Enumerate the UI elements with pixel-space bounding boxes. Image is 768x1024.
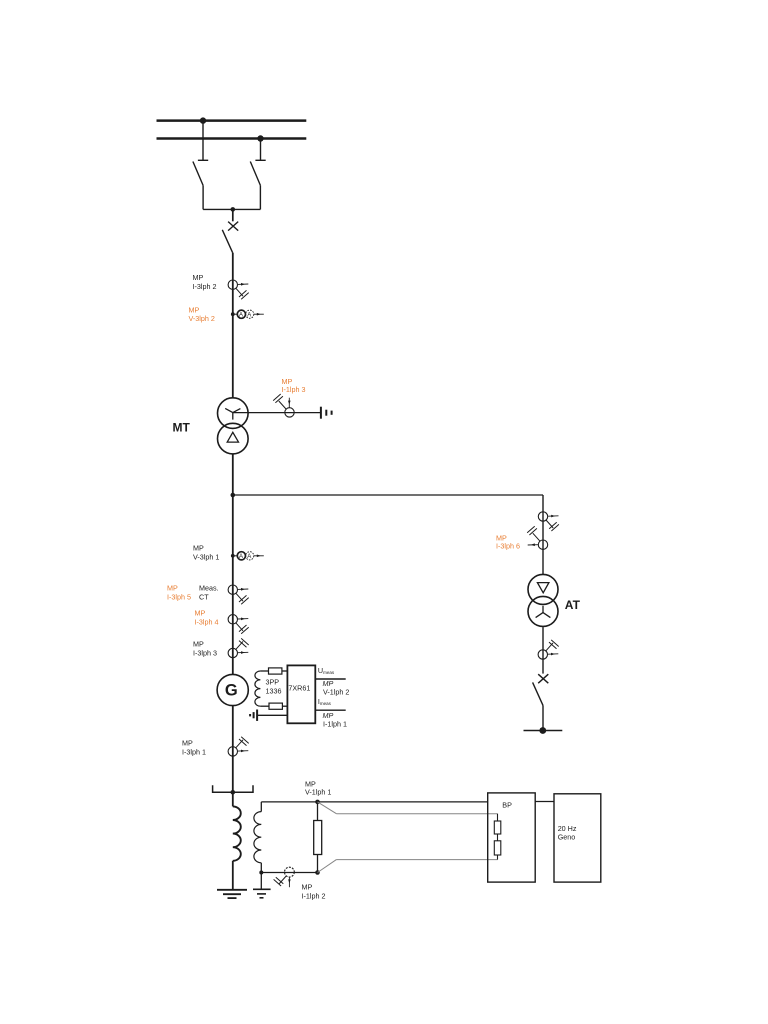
wire coil bottom to 7XR61: [260, 705, 287, 707]
generator G: [217, 674, 248, 705]
wire below AT: [542, 627, 544, 674]
label MT: [173, 421, 191, 435]
arrow MP I-3lph 3: [238, 651, 248, 654]
busbar 1: [157, 119, 307, 122]
node tap 2 on busbar 2: [257, 135, 263, 141]
label MP I-3lph 5: [167, 584, 191, 602]
CT circle MP I-3lph 6: [538, 540, 547, 549]
wire output U meas: [315, 678, 345, 680]
AT wye symbol: [536, 606, 551, 618]
arrow MP I-3lph 1: [238, 750, 248, 753]
svg-text:AT: AT: [565, 598, 581, 612]
slash mark MP I-3lph 4: [236, 623, 249, 634]
wire coil to ground: [232, 861, 234, 890]
resistor BP 2: [494, 841, 501, 855]
svg-text:A: A: [239, 554, 243, 560]
wire main below junction: [232, 495, 234, 674]
slash mark MP I-3lph 3: [236, 638, 249, 649]
svg-text:I-1lph 3: I-1lph 3: [282, 385, 306, 394]
svg-text:I-3lph 1: I-3lph 1: [182, 748, 206, 757]
label MP I-3lph 1: [182, 739, 206, 757]
CT circle MP I-3lph 3: [228, 648, 237, 657]
busbar 2: [157, 137, 307, 140]
label MP V-3lph 2: [189, 305, 215, 323]
CT circle MP I-3lph 2: [228, 280, 237, 289]
svg-text:Imeas: Imeas: [318, 697, 332, 706]
svg-text:MT: MT: [173, 421, 191, 435]
relay box 7XR61: [287, 665, 315, 723]
svg-text:MP: MP: [195, 609, 206, 618]
label MP I-3lph 4: [195, 609, 219, 627]
wire secondary to ground: [260, 873, 262, 890]
node junction main: [231, 493, 236, 498]
label MP V-3lph 1: [193, 544, 219, 562]
svg-text:MP: MP: [189, 305, 200, 314]
node tap 1 on busbar 1: [200, 117, 206, 123]
wire junction to AT branch: [233, 494, 543, 496]
label AT: [565, 598, 581, 612]
wire BP resistor chain: [497, 814, 499, 860]
disconnector left: [193, 162, 203, 210]
label MP V-1lph 2: [323, 679, 350, 696]
label MP I-3lph 3: [193, 640, 217, 658]
arrow MP I-3lph 2: [238, 283, 248, 286]
svg-text:A: A: [247, 554, 251, 560]
VT symbol MP V-3lph 2: [231, 310, 264, 318]
svg-text:MP: MP: [182, 739, 193, 748]
generator terminal bracket: [213, 785, 253, 792]
slash mark MP I-3lph 6: [527, 526, 540, 541]
slash mark CT AT upper: [546, 520, 559, 531]
gray wire upper to BP: [318, 802, 498, 814]
CT circle MP I-3lph 4: [228, 615, 237, 624]
wire secondary top: [260, 802, 262, 812]
transformer AT winding 2: [528, 596, 558, 626]
wire MT neutral: [233, 412, 321, 414]
svg-text:Meas.: Meas.: [199, 584, 219, 593]
wire top link to BP: [261, 801, 487, 803]
box BP: [488, 793, 536, 882]
svg-text:1336: 1336: [266, 686, 282, 695]
arrow MP I-3lph 6: [528, 543, 538, 546]
svg-text:V-3lph 2: V-3lph 2: [189, 314, 215, 323]
wire secondary bottom: [261, 863, 317, 873]
transformer MT winding 1: [218, 398, 249, 429]
wire G to bracket: [232, 706, 234, 793]
label I meas: [318, 697, 332, 706]
label U meas: [318, 666, 335, 675]
svg-text:I-1lph 1: I-1lph 1: [323, 719, 347, 728]
wire AT branch vertical upper: [542, 495, 544, 574]
svg-text:MP: MP: [193, 544, 204, 553]
CT circle AT upper: [538, 512, 547, 521]
slash mark MP I-1lph 2: [274, 876, 287, 886]
slash mark Meas. CT: [236, 593, 249, 604]
coil earthing transformer secondary: [254, 812, 261, 863]
svg-text:V-3lph 1: V-3lph 1: [193, 553, 219, 562]
CT circle MP I-3lph 1: [228, 747, 237, 756]
label 3PP 1336: [266, 677, 282, 695]
slash mark CT AT lower: [546, 640, 559, 651]
MT delta symbol: [227, 432, 238, 442]
box 20 Hz Geno: [554, 794, 601, 882]
node junction below disconnectors: [231, 207, 236, 212]
label MP I-3lph 2: [193, 273, 217, 291]
CT circle MP I-1lph 2: [285, 867, 295, 877]
node resistor bottom: [315, 870, 320, 875]
wire tap 1 down: [198, 121, 208, 161]
breaker X: [228, 222, 238, 231]
resistor loading: [314, 821, 322, 855]
label MP I-1lph 2: [302, 883, 326, 901]
svg-text:MP: MP: [193, 640, 204, 649]
node secondary bottom: [259, 871, 263, 875]
ground under primary coil: [217, 890, 247, 898]
label MP V-1lph 1: [305, 779, 331, 796]
node AT bottom: [539, 727, 546, 734]
slash mark MP I-1lph 3: [273, 394, 286, 409]
svg-text:I-1lph 2: I-1lph 2: [302, 892, 326, 901]
node bracket: [231, 790, 236, 795]
wire bracket to coil: [232, 792, 234, 806]
svg-text:V-1lph 1: V-1lph 1: [305, 788, 331, 797]
resistor 3PP top: [269, 668, 282, 674]
svg-text:I-3lph 2: I-3lph 2: [193, 282, 217, 291]
resistor BP 1: [494, 821, 501, 834]
svg-text:Umeas: Umeas: [318, 666, 335, 675]
arrow Meas. CT: [238, 588, 248, 591]
label MP I-1lph 1: [323, 711, 347, 728]
wire BP to 20 Hz Geno: [535, 801, 554, 803]
slash mark MP I-3lph 1: [236, 737, 249, 748]
svg-text:I-3lph 3: I-3lph 3: [193, 649, 217, 658]
svg-text:A: A: [247, 312, 251, 318]
MT wye symbol: [225, 408, 240, 419]
svg-text:G: G: [225, 682, 238, 700]
node V-1lph 1: [315, 800, 320, 805]
VT symbol MP V-3lph 1: [231, 552, 264, 560]
label MP I-1lph 3: [282, 377, 306, 394]
wire resistor bottom stub: [317, 855, 319, 873]
ground under secondary coil: [253, 889, 271, 898]
wire resistor top stub: [317, 802, 319, 821]
svg-text:MP: MP: [302, 883, 313, 892]
CT circle AT lower: [538, 650, 547, 659]
svg-text:Geno: Geno: [558, 833, 576, 842]
slash mark MP I-3lph 2: [236, 288, 249, 299]
label MP I-3lph 6: [496, 533, 520, 550]
wire joining bar: [203, 208, 260, 210]
svg-text:A: A: [239, 312, 243, 318]
wire tap 2 down: [255, 139, 265, 161]
CT circle Meas. CT / MP I-3lph 5: [228, 585, 237, 594]
svg-text:7XR61: 7XR61: [288, 684, 310, 693]
ground MT neutral: [321, 407, 332, 419]
label Meas. CT: [199, 584, 219, 602]
transformer AT winding 1: [528, 574, 558, 604]
svg-text:BP: BP: [502, 801, 512, 810]
AT delta symbol: [537, 583, 549, 593]
coil earthing transformer primary: [233, 806, 241, 860]
wire down to breaker: [232, 209, 234, 221]
svg-text:3PP: 3PP: [266, 677, 280, 686]
arrow MP I-1lph 2: [288, 877, 291, 887]
svg-text:I-3lph 5: I-3lph 5: [167, 593, 191, 602]
CT circle MP I-1lph 3: [285, 408, 294, 417]
svg-text:MP: MP: [193, 273, 204, 282]
resistor 3PP bottom: [269, 703, 282, 709]
AT bottom bar: [524, 730, 563, 732]
wire ground to 7XR61: [257, 714, 287, 716]
breaker X AT: [538, 674, 548, 683]
gray wire lower to BP: [318, 860, 498, 873]
svg-text:V-1lph 2: V-1lph 2: [323, 687, 349, 696]
wire coil top to 7XR61: [260, 670, 287, 672]
svg-text:I-3lph 4: I-3lph 4: [195, 618, 219, 627]
wire MT to junction: [232, 454, 234, 495]
svg-text:MP: MP: [167, 584, 178, 593]
disconnector right: [250, 162, 260, 210]
svg-text:CT: CT: [199, 593, 209, 602]
wire output I meas: [315, 709, 345, 711]
wire main vertical to MT: [232, 253, 234, 398]
arrow CT AT lower: [548, 653, 558, 656]
arrow CT AT upper: [548, 515, 558, 518]
transformer MT winding 2: [218, 423, 249, 454]
ground 7XR61 input: [250, 710, 257, 721]
svg-text:I-3lph 6: I-3lph 6: [496, 541, 520, 550]
arrow MP I-3lph 4: [238, 618, 248, 621]
disconnector below breaker: [222, 230, 232, 253]
arrow MP I-1lph 3: [288, 398, 291, 408]
disconnector AT: [533, 682, 543, 730]
coil 3PP 1336: [255, 671, 260, 706]
